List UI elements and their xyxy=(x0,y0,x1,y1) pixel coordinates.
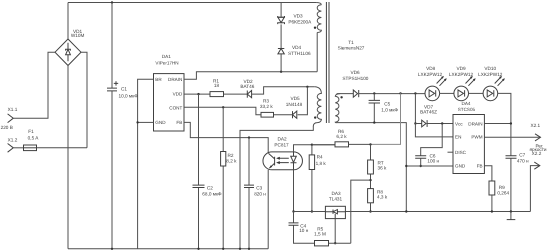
svg-text:DA2: DA2 xyxy=(277,137,287,142)
svg-text:6,2 k: 6,2 k xyxy=(336,134,347,139)
svg-text:DISC: DISC xyxy=(455,150,467,155)
svg-text:0,5 A: 0,5 A xyxy=(28,136,40,141)
wire VDD/C2 vertical xyxy=(198,94,200,249)
node BR/GND junction xyxy=(136,121,138,123)
wire bridge bottom lead to ground rail xyxy=(67,66,69,249)
capacitor C7 470n xyxy=(506,153,530,212)
node junction top rail / C1 xyxy=(111,1,113,3)
diode VD6 STPS1H100 xyxy=(342,70,368,97)
connector X1.2 xyxy=(8,137,18,152)
wire VD2 to aux winding top xyxy=(252,87,315,94)
svg-text:820 н: 820 н xyxy=(254,191,266,196)
wire bridge left stub xyxy=(14,52,55,118)
IC DA1 VIPer17HN switching regulator xyxy=(154,54,185,131)
svg-text:VD10: VD10 xyxy=(484,66,496,71)
svg-text:100 н: 100 н xyxy=(427,158,439,163)
aux winding xyxy=(313,87,321,126)
svg-text:F1: F1 xyxy=(28,129,34,134)
wire R2 branch xyxy=(222,107,224,249)
wire C3 branch xyxy=(248,138,250,249)
wire GND pin link xyxy=(406,165,453,167)
svg-text:1,0 мкФ: 1,0 мкФ xyxy=(381,107,398,112)
capacitor C4 10n xyxy=(289,212,315,244)
svg-text:BAT46Z: BAT46Z xyxy=(420,110,437,115)
svg-text:T1: T1 xyxy=(348,40,354,45)
wire primary ground rail xyxy=(68,248,268,250)
wire primary bottom lead xyxy=(316,33,318,72)
diode VD3 P6KE200A xyxy=(278,13,312,24)
svg-text:VD3: VD3 xyxy=(293,13,303,18)
wire DRAIN pin to primary bottom xyxy=(184,72,317,80)
wire PWM to X2.1 xyxy=(484,136,539,138)
svg-text:X1.1: X1.1 xyxy=(8,107,18,112)
svg-text:LXK2PW12: LXK2PW12 xyxy=(449,72,474,77)
svg-text:R5: R5 xyxy=(317,226,323,231)
svg-text:8,2 k: 8,2 k xyxy=(226,158,237,163)
wire VD7 feed vertical xyxy=(414,93,416,123)
node FB / C3 junction xyxy=(248,136,250,138)
svg-text:DA1: DA1 xyxy=(162,54,171,59)
svg-text:X1.2: X1.2 xyxy=(8,137,18,142)
svg-text:R3: R3 xyxy=(263,99,269,104)
resistor R4 1.8k xyxy=(309,145,326,212)
svg-text:PWM: PWM xyxy=(471,135,482,140)
wire R3 to VD5 xyxy=(274,114,293,116)
svg-text:C5: C5 xyxy=(384,101,390,106)
node LED cathode rail junction xyxy=(292,210,294,212)
svg-text:LXK2PW12: LXK2PW12 xyxy=(478,72,503,77)
IC DA4 STCS05 LED driver xyxy=(453,101,484,173)
resistor R3 33.2k xyxy=(260,99,274,118)
wire aux bottom lead xyxy=(240,126,313,249)
svg-text:1N4148: 1N4148 xyxy=(286,102,303,107)
node Vcc / C6 branch junction xyxy=(441,122,443,124)
svg-text:W10M: W10M xyxy=(71,33,85,38)
node VDD junction xyxy=(197,93,199,95)
wire bridge top lead xyxy=(67,3,69,40)
svg-text:R4: R4 xyxy=(317,155,323,160)
node R8 bottom rail junction xyxy=(369,210,371,212)
connector X2.1 xyxy=(530,123,540,141)
wire VD9 to VD10 xyxy=(469,92,484,94)
node C5 top junction xyxy=(373,92,375,94)
diode VD4 STTH1L06 xyxy=(278,45,311,56)
primary winding xyxy=(317,5,321,33)
svg-text:470 н: 470 н xyxy=(517,158,529,163)
svg-text:VD5: VD5 xyxy=(290,96,300,101)
svg-text:10 н: 10 н xyxy=(299,228,309,233)
svg-text:STPS1H100: STPS1H100 xyxy=(342,76,368,81)
wire DRAIN pin xyxy=(484,123,511,125)
resistor R1 18 xyxy=(210,78,224,96)
svg-text:R2: R2 xyxy=(228,153,234,158)
wire C6 branch xyxy=(421,124,443,156)
node aux polarity dot xyxy=(314,116,316,118)
wire VD8 to VD9 xyxy=(440,92,454,94)
LED VD10 LXK2PW12 xyxy=(478,66,505,101)
wire divider tap grey xyxy=(371,93,401,144)
wire X2.2 branch xyxy=(530,166,539,212)
optocoupler DA2 PC817 xyxy=(263,137,303,170)
bridge rectifier VD1 xyxy=(55,29,84,65)
svg-text:BR: BR xyxy=(155,77,162,82)
svg-text:DA4: DA4 xyxy=(462,101,471,106)
svg-text:TL431: TL431 xyxy=(329,197,343,202)
fuse F1 0.5A xyxy=(24,129,40,151)
resistor R5 1.5M xyxy=(314,226,351,246)
wire DISC stub xyxy=(448,151,454,153)
node RT/R8 junction xyxy=(369,179,371,181)
node aux return rail junction xyxy=(239,248,241,250)
node aux top junction xyxy=(306,86,308,88)
wire CONT pin xyxy=(184,107,261,114)
node secondary polarity dot xyxy=(340,96,342,98)
wire FB pin to optocoupler xyxy=(184,122,268,152)
node RT top junction xyxy=(369,143,371,145)
svg-text:DA3: DA3 xyxy=(331,191,341,196)
LED VD9 LXK2PW12 xyxy=(449,66,476,101)
node CONT junction xyxy=(222,106,224,108)
transformer T1 SiemensN27 xyxy=(239,2,365,250)
wire VD5 branch vertical xyxy=(298,87,308,115)
capacitor C5 1.0uF xyxy=(369,93,399,122)
wire VDD pin xyxy=(184,93,210,95)
capacitor C6 100n xyxy=(415,154,439,166)
node C6 bottom junction xyxy=(420,165,422,167)
wire secondary ground rail xyxy=(294,211,531,213)
node R4 bottom rail junction xyxy=(311,210,313,212)
connector X2.2 xyxy=(530,143,547,169)
wire FB pin to R9 xyxy=(484,166,492,181)
svg-text:C3: C3 xyxy=(256,186,262,191)
wire X1.2 to fuse xyxy=(14,147,24,149)
node C1 bottom junction xyxy=(111,248,113,250)
svg-text:C1: C1 xyxy=(121,86,127,91)
node LED anode / R4 junction xyxy=(311,144,313,146)
diode VD2 BAT46 xyxy=(240,79,254,98)
node VD7 anode junction xyxy=(414,122,416,124)
capacitor C3 820n xyxy=(244,185,266,196)
diode VD5 1N4148 xyxy=(286,96,303,118)
diode VD7 BAT46Z xyxy=(415,105,453,127)
node C7 bottom rail junction xyxy=(510,210,512,212)
wire TL431 ref lead xyxy=(334,219,336,244)
svg-text:R9: R9 xyxy=(499,185,505,190)
wire top rail xyxy=(68,2,316,4)
svg-text:SiemensN27: SiemensN27 xyxy=(338,45,365,50)
wire output positive rail xyxy=(359,93,425,95)
svg-text:VDD: VDD xyxy=(173,92,183,97)
svg-text:X2.1: X2.1 xyxy=(530,123,540,128)
resistor R8 4.3k xyxy=(368,189,388,212)
svg-text:GND: GND xyxy=(155,120,166,125)
svg-text:1,5 М: 1,5 М xyxy=(314,232,326,237)
svg-text:P6KE200A: P6KE200A xyxy=(288,20,312,25)
svg-text:0,264: 0,264 xyxy=(497,191,509,196)
node VD7 feed junction xyxy=(414,92,416,94)
svg-text:220 В: 220 В xyxy=(1,125,13,130)
svg-text:33,2 k: 33,2 k xyxy=(260,104,273,109)
node ref/R5 junction xyxy=(334,242,336,244)
svg-text:CONT: CONT xyxy=(169,106,182,111)
svg-text:1,8 k: 1,8 k xyxy=(316,161,327,166)
svg-text:18: 18 xyxy=(214,83,220,88)
svg-text:STTH1L06: STTH1L06 xyxy=(288,51,311,56)
svg-text:10,0 мкФ: 10,0 мкФ xyxy=(119,93,139,98)
svg-text:FB: FB xyxy=(477,164,483,169)
svg-text:4,3 k: 4,3 k xyxy=(377,194,388,199)
node R2 bottom junction xyxy=(222,248,224,250)
node return rail junction xyxy=(405,210,407,212)
wire opto LED cathode xyxy=(293,170,295,212)
resistor R2 8.2k xyxy=(221,152,238,167)
svg-text:Vcc: Vcc xyxy=(455,121,463,126)
svg-text:C2: C2 xyxy=(207,186,213,191)
wire opto LED anode xyxy=(294,145,336,152)
wire R1 to VD2 xyxy=(224,93,248,95)
node R9 bottom rail junction xyxy=(491,210,493,212)
secondary winding xyxy=(335,94,340,123)
wire secondary top to VD6 xyxy=(337,93,354,95)
svg-text:LXK2PW12: LXK2PW12 xyxy=(418,72,443,77)
capacitor C1 10uF xyxy=(107,3,138,249)
svg-text:68,0 мкФ: 68,0 мкФ xyxy=(202,192,222,197)
capacitor C2 68uF xyxy=(193,185,222,197)
svg-text:X2.2: X2.2 xyxy=(532,151,542,156)
node C2 bottom junction xyxy=(197,248,199,250)
LED VD8 LXK2PW12 xyxy=(418,66,447,101)
wire secondary bottom return xyxy=(337,123,407,212)
resistor R6 6.2k xyxy=(312,129,371,147)
svg-text:VD9: VD9 xyxy=(456,66,466,71)
thermistor RT 36k xyxy=(368,144,387,188)
wire bridge right stub down to fuse xyxy=(81,52,87,148)
node DRAIN junction xyxy=(510,122,512,124)
node GND/return junction xyxy=(405,165,407,167)
svg-text:FB: FB xyxy=(176,120,182,125)
core xyxy=(326,2,329,123)
wire REF link xyxy=(351,180,371,243)
node C3 bottom junction xyxy=(248,248,250,250)
node divider tap junction xyxy=(399,92,401,94)
connector X1.1 xyxy=(8,107,18,123)
wire snubber branch xyxy=(280,3,282,72)
node C5 bottom junction xyxy=(373,121,375,123)
wire BR pin xyxy=(138,79,154,249)
resistor R9 0.264 xyxy=(489,181,510,212)
ground xyxy=(507,212,516,220)
wire fuse to bridge vertical xyxy=(37,147,88,149)
svg-text:C7: C7 xyxy=(519,153,525,158)
wire EN link xyxy=(415,124,453,137)
svg-text:VD8: VD8 xyxy=(426,66,436,71)
wire emitter to ground rail xyxy=(267,170,269,249)
svg-text:DRAIN: DRAIN xyxy=(168,77,182,82)
node primary polarity dot xyxy=(314,27,316,29)
svg-text:STCS05: STCS05 xyxy=(458,107,476,112)
svg-text:VD6: VD6 xyxy=(350,70,360,75)
wire primary top lead xyxy=(316,3,321,5)
svg-text:BAT46: BAT46 xyxy=(240,84,254,89)
wire LED string to drain vertical xyxy=(498,93,511,155)
svg-text:PC817: PC817 xyxy=(274,142,289,147)
svg-text:VIPer17HN: VIPer17HN xyxy=(155,61,178,66)
svg-text:36 k: 36 k xyxy=(378,166,388,171)
node snubber junction xyxy=(280,71,282,73)
svg-text:VD4: VD4 xyxy=(292,45,302,50)
svg-text:EN: EN xyxy=(455,135,461,140)
svg-text:DRAIN: DRAIN xyxy=(468,121,482,126)
svg-text:GND: GND xyxy=(455,164,466,169)
shunt regulator DA3 TL431 xyxy=(325,191,345,218)
wire GND pin xyxy=(138,121,154,123)
